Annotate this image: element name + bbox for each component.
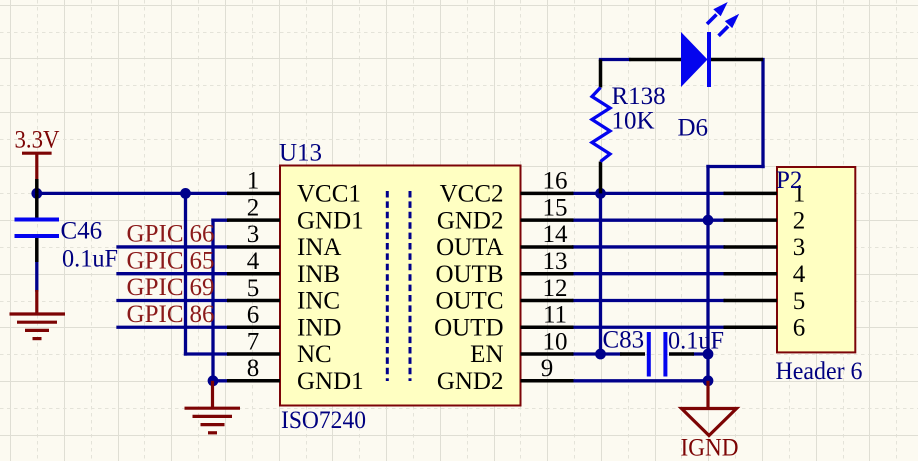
svg-text:69: 69 — [190, 274, 215, 301]
svg-text:14: 14 — [543, 221, 569, 248]
svg-text:5: 5 — [247, 275, 260, 302]
svg-text:3: 3 — [793, 234, 806, 261]
svg-text:2: 2 — [793, 208, 806, 235]
svg-text:11: 11 — [543, 302, 567, 329]
svg-text:OUTC: OUTC — [435, 288, 503, 315]
svg-text:4: 4 — [247, 248, 260, 275]
svg-text:OUTD: OUTD — [434, 314, 503, 341]
svg-text:C46: C46 — [61, 218, 103, 245]
svg-text:C83: C83 — [603, 327, 645, 354]
svg-text:3.3V: 3.3V — [15, 127, 60, 154]
svg-text:12: 12 — [543, 275, 568, 302]
svg-text:IND: IND — [297, 314, 341, 341]
svg-text:OUTA: OUTA — [436, 234, 503, 261]
svg-text:NC: NC — [297, 341, 332, 368]
svg-text:IGND: IGND — [681, 435, 739, 461]
svg-text:U13: U13 — [279, 139, 322, 166]
svg-text:6: 6 — [247, 302, 260, 329]
svg-text:4: 4 — [793, 261, 806, 288]
svg-text:0.1uF: 0.1uF — [62, 246, 118, 273]
svg-text:GND1: GND1 — [297, 368, 364, 395]
svg-text:6: 6 — [793, 315, 806, 342]
svg-text:15: 15 — [543, 195, 568, 222]
svg-text:D6: D6 — [678, 115, 709, 142]
svg-text:3: 3 — [247, 221, 260, 248]
svg-text:GND2: GND2 — [437, 207, 504, 234]
svg-text:8: 8 — [247, 355, 260, 382]
svg-text:2: 2 — [247, 195, 260, 222]
svg-text:INA: INA — [297, 234, 341, 261]
svg-text:R138: R138 — [612, 83, 666, 110]
svg-text:0.1uF: 0.1uF — [668, 328, 724, 355]
svg-text:65: 65 — [190, 247, 215, 274]
svg-text:P2: P2 — [776, 167, 802, 194]
svg-text:1: 1 — [247, 168, 260, 195]
svg-text:GPIC: GPIC — [127, 247, 184, 274]
svg-text:GND1: GND1 — [297, 207, 364, 234]
svg-text:GPIC: GPIC — [127, 274, 184, 301]
svg-text:GPIC: GPIC — [127, 301, 184, 328]
svg-text:OUTB: OUTB — [435, 261, 503, 288]
svg-text:16: 16 — [543, 168, 568, 195]
svg-text:9: 9 — [541, 355, 554, 382]
svg-text:GPIC: GPIC — [127, 221, 184, 248]
svg-text:66: 66 — [190, 221, 215, 248]
svg-text:VCC2: VCC2 — [440, 181, 504, 208]
svg-text:INC: INC — [297, 288, 340, 315]
svg-text:INB: INB — [297, 261, 340, 288]
svg-text:VCC1: VCC1 — [297, 181, 361, 208]
svg-text:GND2: GND2 — [437, 368, 504, 395]
svg-text:Header 6: Header 6 — [776, 358, 863, 385]
svg-text:86: 86 — [190, 301, 215, 328]
svg-text:10: 10 — [543, 328, 568, 355]
svg-text:EN: EN — [470, 341, 503, 368]
svg-text:5: 5 — [793, 288, 806, 315]
svg-text:ISO7240: ISO7240 — [281, 407, 366, 434]
svg-text:13: 13 — [543, 248, 568, 275]
svg-text:10K: 10K — [612, 108, 655, 135]
svg-text:7: 7 — [247, 328, 260, 355]
